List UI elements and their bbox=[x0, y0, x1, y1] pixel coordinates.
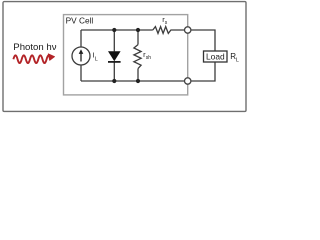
svg-text:L: L bbox=[236, 57, 239, 63]
svg-text:L: L bbox=[95, 57, 98, 63]
svg-text:Load: Load bbox=[206, 51, 225, 61]
svg-text:PV Cell: PV Cell bbox=[66, 16, 94, 26]
svg-text:sh: sh bbox=[146, 55, 152, 61]
svg-text:Photon hν: Photon hν bbox=[13, 42, 56, 53]
